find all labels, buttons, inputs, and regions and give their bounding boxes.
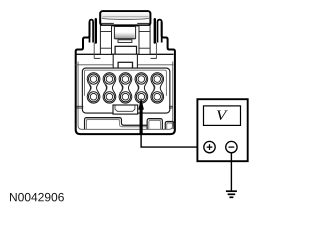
figure label N0042906 xyxy=(10,193,64,202)
connector cap step lines xyxy=(101,22,149,24)
connector left wall bridge xyxy=(76,106,83,108)
voltmeter negative terminal xyxy=(226,141,237,152)
connector bottom tab xyxy=(165,121,174,129)
voltmeter U1 xyxy=(197,99,247,161)
connector right wall bridge xyxy=(169,106,173,108)
terminal cavity column 2 xyxy=(103,73,116,103)
connector secondary shoulder line xyxy=(76,64,174,66)
terminal cavity column 5 xyxy=(151,73,164,103)
connector index tray xyxy=(113,105,138,114)
connector bottom rail right xyxy=(147,119,162,130)
connector C1 body silhouette xyxy=(76,22,175,134)
connector shoulder line xyxy=(76,53,174,55)
wire from terminal to voltmeter positive lead xyxy=(141,133,204,147)
connector left side column xyxy=(100,26,111,55)
ground xyxy=(226,191,237,197)
terminal cavity column 1 xyxy=(87,73,100,103)
probe arrow pointing at terminal xyxy=(138,98,144,134)
voltmeter positive terminal xyxy=(204,141,215,152)
connector center key block xyxy=(113,54,137,68)
connector left lock tab xyxy=(90,19,101,58)
connector latch lower block xyxy=(115,46,136,54)
connector right lock tab xyxy=(151,19,162,58)
connector latch cap xyxy=(100,11,150,25)
connector right side column xyxy=(139,26,150,55)
terminal cavity column 3 xyxy=(119,73,132,103)
connector latch small bar xyxy=(118,40,132,43)
connector latch channel xyxy=(114,26,135,40)
connector bottom rail left xyxy=(85,118,148,130)
connector inner wall line xyxy=(78,62,173,130)
connector socket face xyxy=(82,68,169,113)
wire from negative terminal to ground xyxy=(230,153,232,191)
terminal cavity column 4 xyxy=(135,73,148,103)
